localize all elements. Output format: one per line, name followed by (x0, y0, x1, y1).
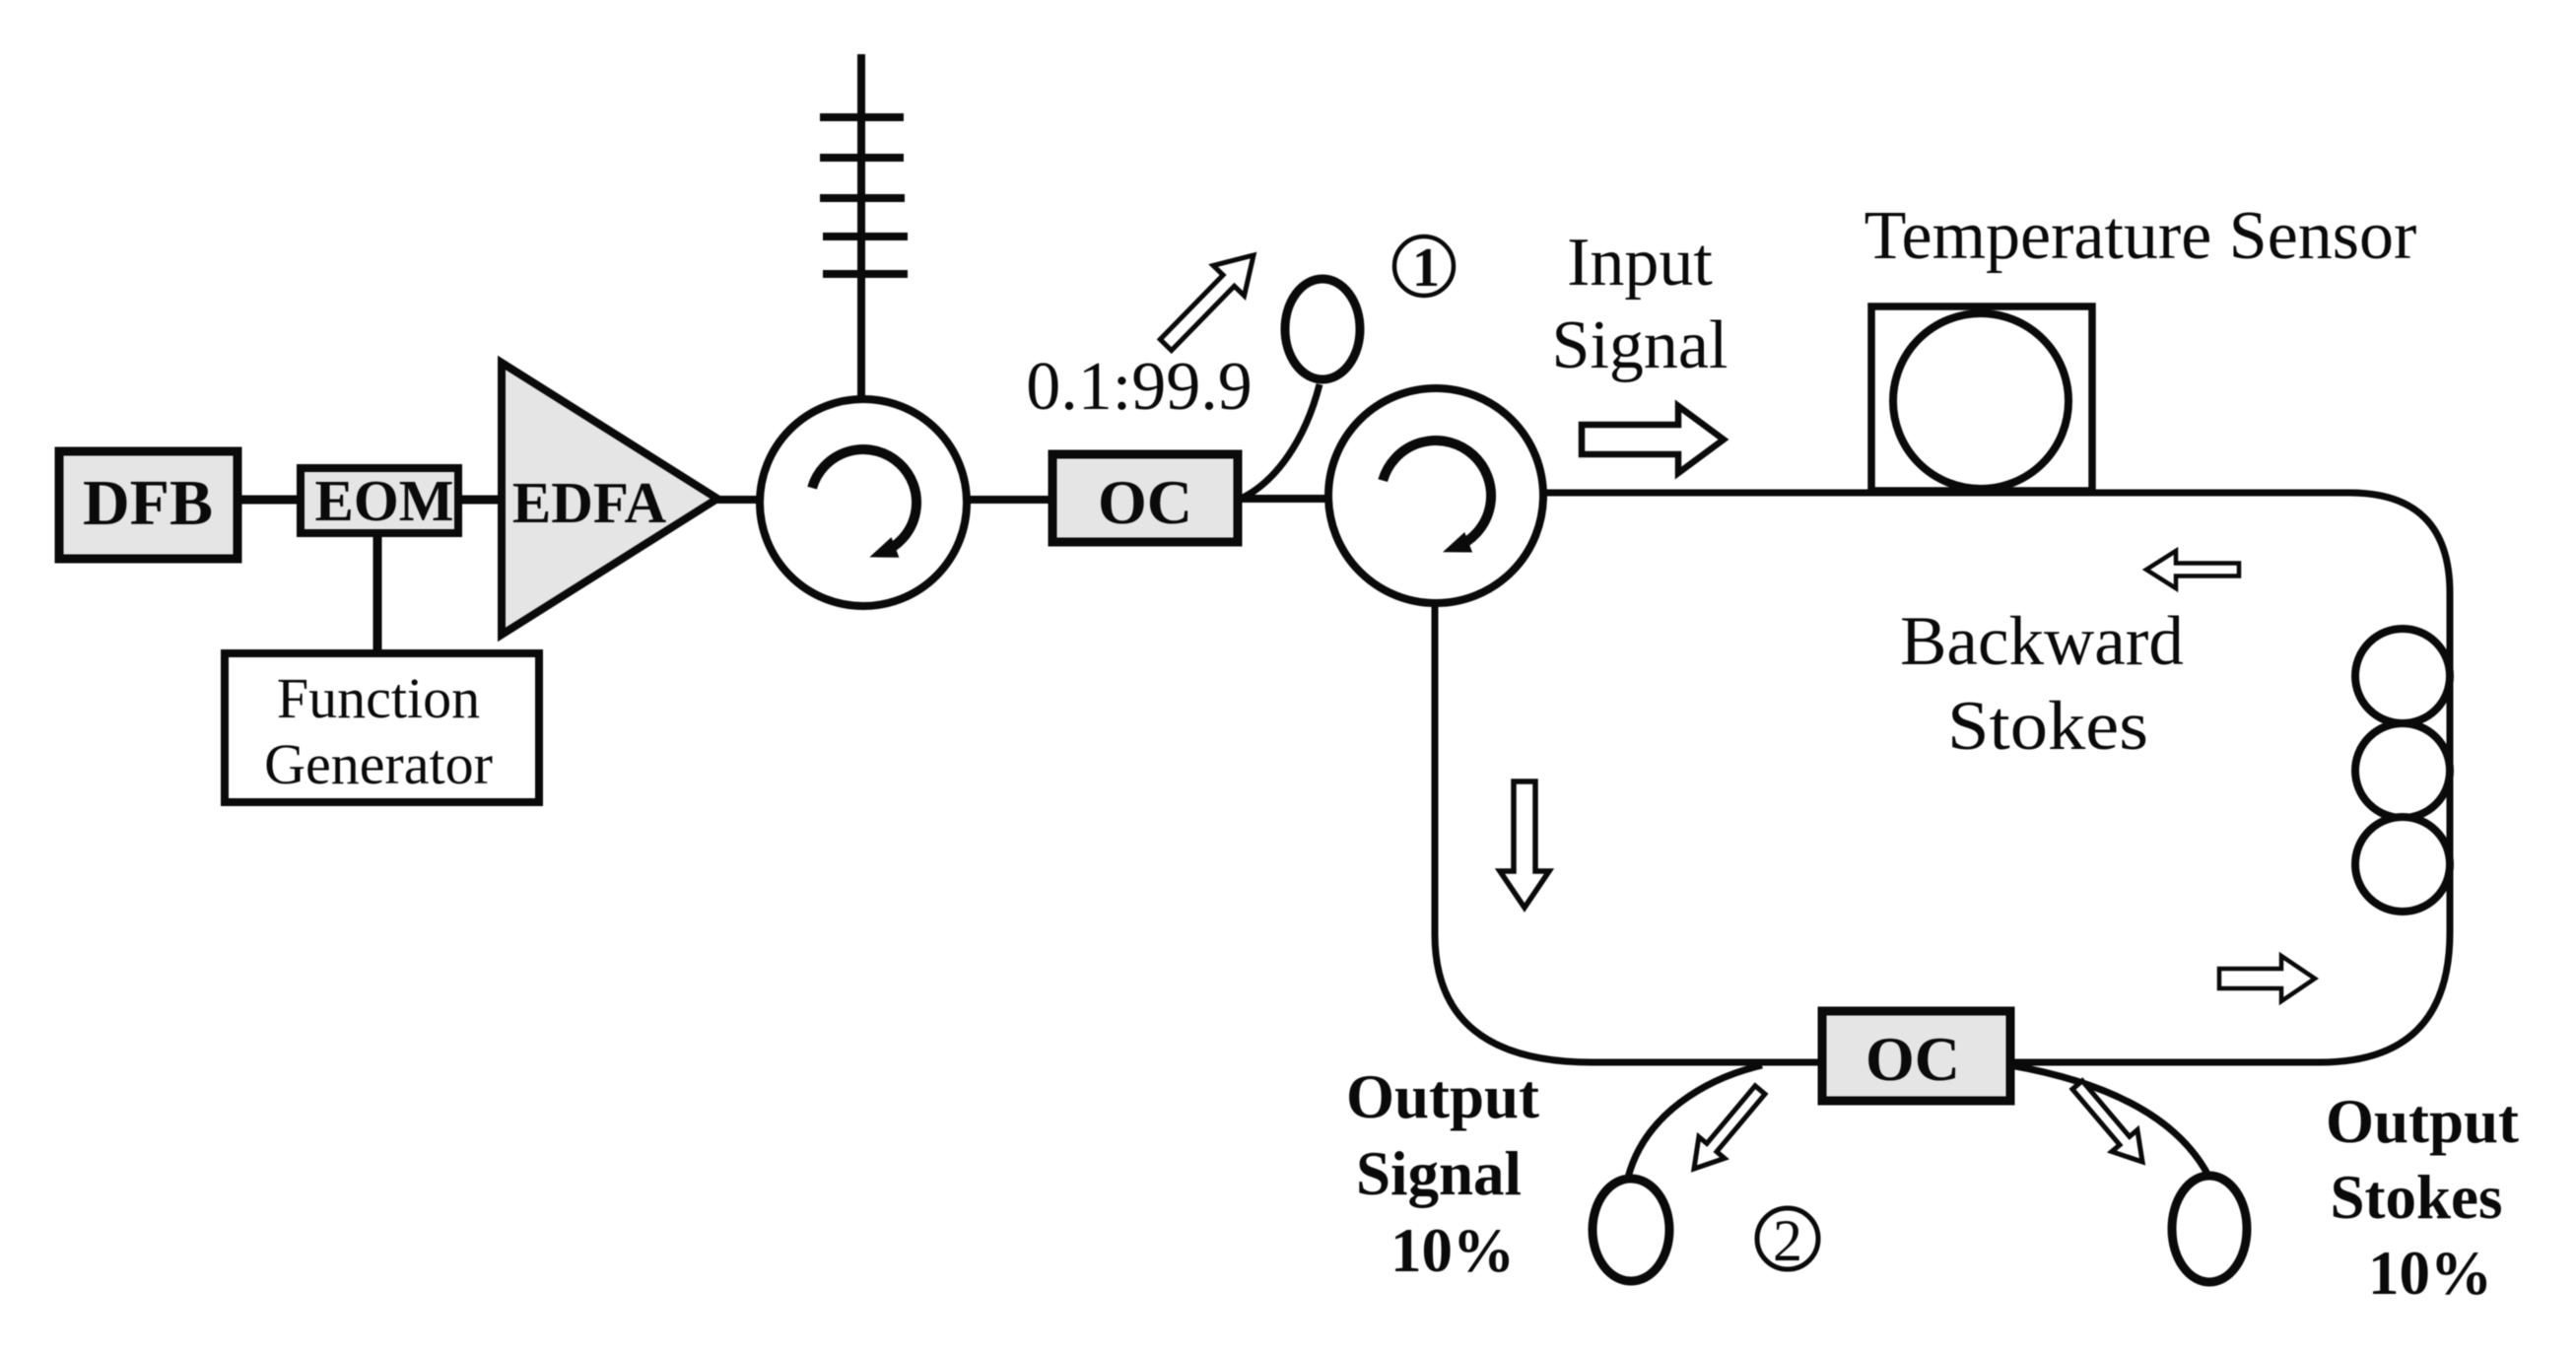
FBG tick 3 (820, 194, 905, 202)
fiber sensing loop wire (1435, 493, 2450, 1062)
svg-text:1: 1 (1412, 237, 1440, 299)
wire CIR1-OC1 (962, 496, 1056, 504)
svg-text:Temperature Sensor: Temperature Sensor (1864, 198, 2417, 274)
svg-text:10%: 10% (1390, 1216, 1515, 1285)
pigtail fiber OC2 to output signal loop end (1628, 1065, 1762, 1178)
svg-text:2: 2 (1773, 1208, 1802, 1273)
svg-text:Stokes: Stokes (2330, 1163, 2502, 1232)
temperature sensor fiber circle (1893, 313, 2068, 489)
wire OC1-CIR2 (1234, 495, 1336, 503)
FBG tick 2 (820, 154, 904, 162)
svg-text:Input: Input (1567, 225, 1713, 301)
box Temperature Sensor (1871, 306, 2092, 491)
svg-text:0.1:99.9: 0.1:99.9 (1026, 349, 1252, 425)
fiber loop end 1 (ellipse) (1285, 279, 1360, 379)
svg-text:Backward: Backward (1900, 603, 2184, 680)
fiber coil circle 3 (2355, 817, 2450, 912)
box Function Generator (225, 653, 539, 802)
fiber coil circle 1 (2355, 629, 2450, 723)
wire EDFA-CIR1 (713, 496, 765, 504)
svg-text:Output: Output (1346, 1062, 1539, 1131)
arrow down-right to output stokes port (2072, 1081, 2142, 1162)
fiber coil circle 2 (2355, 723, 2450, 818)
wire EOM-EDFA (456, 496, 512, 505)
svg-text:OC: OC (1098, 467, 1192, 537)
FBG tick 1 (820, 113, 904, 121)
wire EOM to Function Generator (373, 533, 382, 653)
box EOM (301, 468, 458, 533)
arrow input signal (right) (1582, 406, 1724, 473)
svg-text:Signal: Signal (1552, 307, 1729, 383)
wire DFB-EOM (240, 496, 303, 505)
arrow down-left to output signal port (1694, 1086, 1765, 1169)
pigtail fiber OC2 to output stokes loop end (2010, 1065, 2208, 1176)
arrow backward stokes (left) (2146, 551, 2239, 588)
svg-text:OC: OC (1865, 1024, 1960, 1094)
arrow right before bottom corner (2219, 956, 2315, 1001)
FBG line above CIR1 (857, 54, 865, 406)
FBG tick 5 (823, 270, 908, 278)
coupler OC1 (1052, 454, 1238, 542)
svg-text:Generator: Generator (264, 732, 493, 796)
output stokes loop end (ellipse) (2172, 1176, 2247, 1282)
arrow down on left leg (1500, 781, 1549, 908)
svg-text:DFB: DFB (83, 467, 213, 539)
svg-text:Stokes: Stokes (1947, 688, 2148, 765)
svg-text:Function: Function (277, 666, 480, 730)
FBG tick 4 (823, 233, 908, 240)
coupler OC2 (1822, 1011, 2010, 1101)
node 1 (circled) (1394, 237, 1454, 296)
output signal loop end (ellipse) (1593, 1179, 1669, 1281)
circulator CIR1 (760, 399, 967, 606)
amplifier EDFA (triangle) (502, 363, 717, 635)
arrow tapped output up-right at OC1 (1160, 255, 1254, 351)
node 2 (circled) (1757, 1208, 1818, 1269)
svg-text:Signal: Signal (1356, 1139, 1522, 1208)
circulator CIR2 (1328, 388, 1543, 603)
box DFB (59, 451, 237, 559)
svg-text:Output: Output (2326, 1087, 2519, 1156)
svg-text:EDFA: EDFA (512, 470, 667, 535)
svg-text:10%: 10% (2368, 1239, 2492, 1308)
svg-text:EOM: EOM (315, 468, 454, 533)
pigtail fiber OC1 to loop end 1 (1239, 384, 1320, 500)
